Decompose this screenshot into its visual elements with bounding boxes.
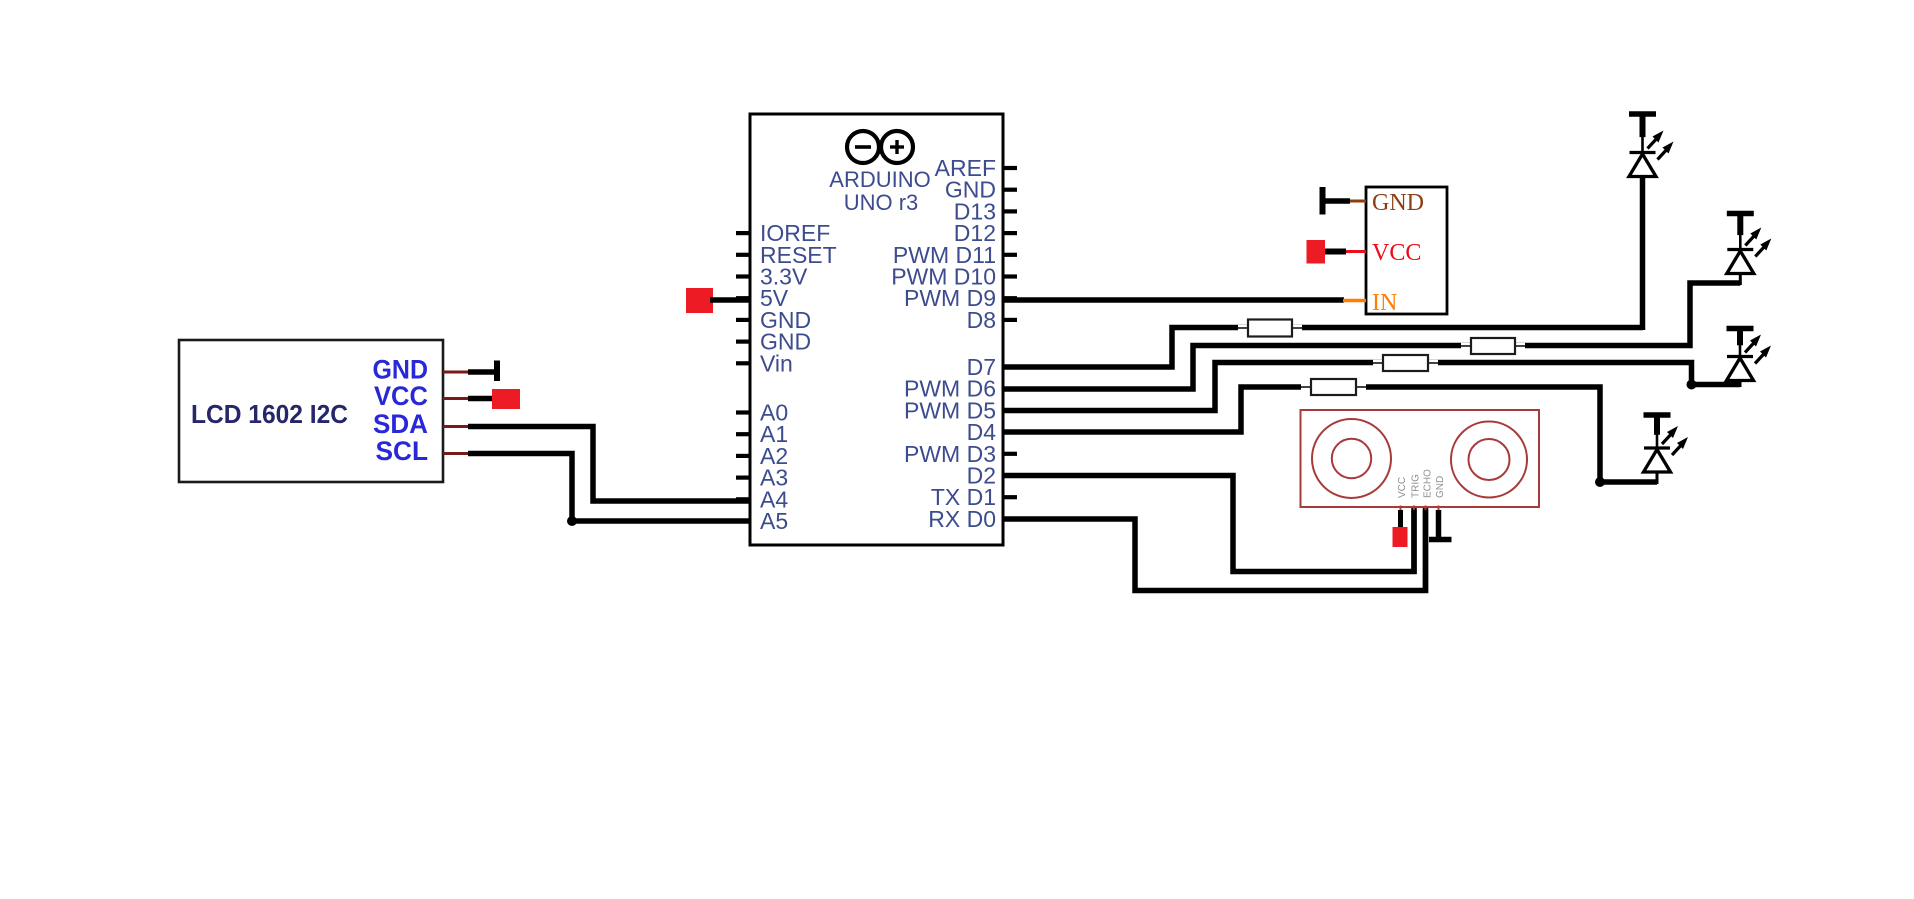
- svg-text:D8: D8: [967, 307, 996, 333]
- svg-text:GND: GND: [1435, 476, 1446, 498]
- svg-text:A5: A5: [760, 508, 788, 534]
- svg-text:ECHO: ECHO: [1423, 469, 1434, 498]
- svg-text:IN: IN: [1372, 290, 1397, 316]
- svg-text:RX D0: RX D0: [928, 506, 996, 532]
- svg-text:LCD 1602 I2C: LCD 1602 I2C: [191, 399, 348, 429]
- svg-text:VCC: VCC: [374, 381, 428, 411]
- svg-text:GND: GND: [373, 355, 429, 385]
- svg-text:UNO r3: UNO r3: [844, 190, 919, 215]
- svg-text:TRIG: TRIG: [1411, 474, 1422, 498]
- svg-text:VCC: VCC: [1397, 477, 1408, 498]
- svg-text:Vin: Vin: [760, 350, 793, 376]
- svg-text:SCL: SCL: [376, 436, 429, 466]
- svg-text:GND: GND: [1372, 190, 1424, 216]
- svg-text:VCC: VCC: [1372, 240, 1421, 266]
- svg-text:SDA: SDA: [373, 409, 428, 439]
- svg-text:ARDUINO: ARDUINO: [829, 167, 930, 192]
